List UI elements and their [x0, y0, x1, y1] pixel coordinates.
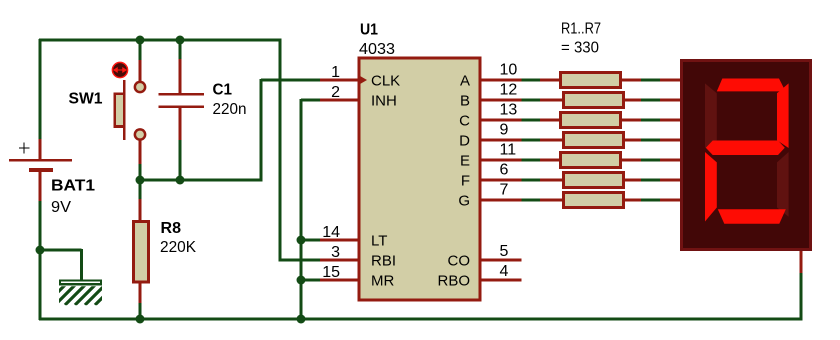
svg-text:11: 11: [500, 142, 517, 159]
svg-text:6: 6: [500, 162, 509, 179]
svg-text:C: C: [459, 112, 470, 129]
svg-text:10: 10: [500, 62, 518, 79]
svg-text:RBI: RBI: [371, 252, 396, 269]
svg-text:R1..R7: R1..R7: [561, 21, 601, 38]
svg-text:4033: 4033: [359, 41, 395, 58]
svg-text:C1: C1: [213, 82, 233, 99]
svg-text:13: 13: [500, 102, 518, 119]
svg-text:RBO: RBO: [437, 272, 470, 289]
svg-text:U1: U1: [360, 22, 378, 39]
svg-text:CO: CO: [448, 252, 471, 269]
svg-text:= 330: = 330: [561, 40, 599, 57]
svg-text:SW1: SW1: [69, 91, 103, 108]
svg-text:3: 3: [331, 244, 340, 261]
svg-text:9V: 9V: [51, 199, 71, 216]
svg-text:CLK: CLK: [371, 72, 400, 89]
svg-text:1: 1: [331, 64, 340, 81]
svg-text:MR: MR: [371, 272, 394, 289]
svg-text:R8: R8: [161, 220, 182, 237]
svg-text:LT: LT: [371, 232, 387, 249]
svg-text:B: B: [460, 92, 470, 109]
svg-text:9: 9: [500, 122, 509, 139]
svg-text:D: D: [459, 132, 470, 149]
svg-text:INH: INH: [371, 92, 397, 109]
svg-text:G: G: [458, 192, 470, 209]
svg-text:220K: 220K: [160, 239, 196, 256]
svg-text:E: E: [460, 152, 470, 169]
svg-text:A: A: [460, 72, 470, 89]
svg-text:12: 12: [500, 82, 518, 99]
svg-text:F: F: [461, 172, 470, 189]
svg-text:BAT1: BAT1: [51, 178, 95, 195]
svg-text:14: 14: [322, 224, 340, 241]
svg-text:5: 5: [500, 243, 509, 260]
svg-text:15: 15: [322, 264, 340, 281]
svg-text:2: 2: [331, 84, 340, 101]
svg-text:7: 7: [500, 182, 509, 199]
svg-text:4: 4: [500, 263, 509, 280]
svg-text:220n: 220n: [213, 101, 247, 118]
